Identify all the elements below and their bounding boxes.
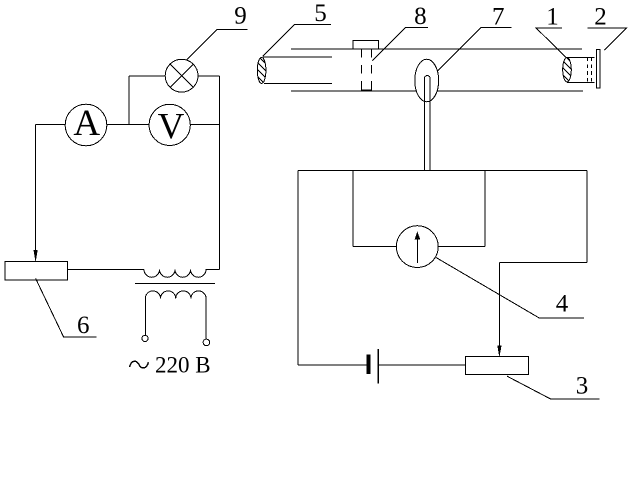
label 2 bbox=[588, 3, 627, 50]
tube outer bottom line bbox=[291, 90, 583, 92]
svg-text:5: 5 bbox=[314, 0, 327, 27]
wire junction to lamp bbox=[129, 75, 165, 77]
galvanometer P4 bbox=[396, 226, 438, 268]
tube inner bottom line bbox=[264, 82, 332, 84]
svg-text:8: 8 bbox=[414, 3, 427, 30]
label 8 bbox=[372, 3, 428, 60]
battery GB positive plate bbox=[377, 349, 379, 384]
svg-text:1: 1 bbox=[546, 3, 559, 30]
rheostat R3 bbox=[466, 356, 529, 374]
battery GB negative plate bbox=[367, 355, 370, 374]
lamp HL 9 bbox=[165, 59, 198, 92]
inner box bottom wires to galvanometer bbox=[353, 245, 485, 247]
svg-text:4: 4 bbox=[556, 291, 569, 318]
wire voltmeter to right vertical bbox=[190, 123, 219, 125]
box left vertical bbox=[297, 171, 299, 366]
electrode cylinder bottom line bbox=[567, 82, 595, 84]
electrode cylinder top line bbox=[567, 57, 595, 59]
wire lamp to right vertical bbox=[198, 75, 219, 77]
voltmeter U-V bbox=[149, 104, 190, 147]
arrow into resistor 6 bbox=[34, 250, 37, 260]
terminal right bbox=[203, 339, 210, 346]
wire resistor 6 to transformer T1 primary bbox=[68, 269, 145, 271]
box step horizontal bbox=[499, 262, 587, 264]
ammeter U-A bbox=[65, 103, 107, 146]
tube outer top line bbox=[291, 48, 582, 50]
detector ellipse 7 bbox=[415, 59, 439, 102]
label 4 bbox=[436, 258, 584, 319]
svg-text:2: 2 bbox=[594, 3, 607, 30]
label 6 bbox=[36, 278, 97, 338]
svg-text:9: 9 bbox=[234, 2, 247, 29]
label 9 bbox=[187, 2, 248, 59]
label 7 bbox=[437, 4, 511, 72]
AC tilde symbol bbox=[130, 361, 149, 368]
slit knob 8 on tube bbox=[353, 40, 379, 49]
label 3 bbox=[507, 373, 600, 400]
cathode hatched ellipse 1 bbox=[558, 49, 572, 91]
tube inner top line bbox=[263, 56, 332, 58]
wire left vertical from ammeter down to resistor 6 bbox=[35, 124, 37, 250]
transformer T1 secondary winding bbox=[145, 291, 206, 339]
wire ammeter to voltmeter bbox=[107, 123, 149, 125]
inner box right vertical bbox=[484, 171, 486, 247]
terminal left bbox=[142, 335, 148, 341]
slit dashed lines bbox=[362, 49, 372, 91]
label 1 bbox=[536, 3, 566, 57]
tube end cap, hatched ellipse left (electrode of tube 5) bbox=[252, 50, 266, 92]
box top edge bbox=[298, 170, 587, 172]
transformer T1 primary winding bbox=[144, 270, 220, 278]
wire box to battery bbox=[298, 364, 367, 366]
inner box left vertical bbox=[352, 171, 354, 247]
wire battery to rheostat 3 bbox=[378, 364, 465, 366]
svg-text:6: 6 bbox=[77, 312, 90, 339]
wire horizontal left to ammeter bbox=[36, 123, 66, 125]
svg-text:A: A bbox=[73, 103, 100, 144]
svg-text:V: V bbox=[158, 107, 185, 148]
svg-text:7: 7 bbox=[492, 4, 505, 31]
node junction to lamp branch bbox=[128, 76, 130, 124]
wire step vertical with arrow into rheostat 3 bbox=[498, 263, 501, 356]
resistor R6 (rheostat body) bbox=[5, 261, 67, 280]
probe rod from ellipse 7 to box bbox=[424, 76, 430, 171]
label 5 bbox=[263, 0, 331, 56]
svg-text:3: 3 bbox=[576, 373, 589, 400]
svg-text:220 В: 220 В bbox=[155, 353, 211, 378]
transformer core bbox=[135, 282, 215, 284]
box right vertical bbox=[586, 171, 588, 263]
wire right vertical of left circuit bbox=[219, 76, 221, 270]
grid dashed lines bbox=[587, 58, 591, 83]
screen bar 2 bbox=[597, 49, 600, 88]
